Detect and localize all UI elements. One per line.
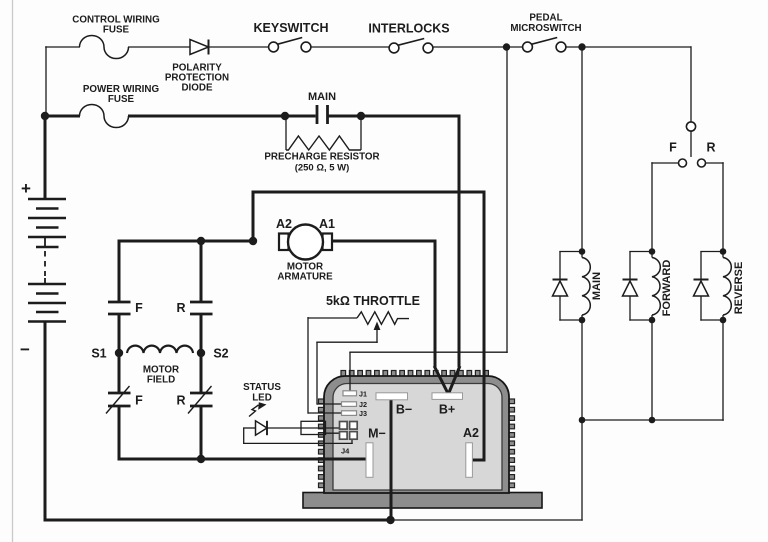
throttle wiper arrow	[374, 322, 381, 344]
label B+	[439, 403, 455, 417]
wire coil return bus	[581, 419, 724, 421]
svg-text:PRECHARGE RESISTOR: PRECHARGE RESISTOR	[264, 152, 379, 163]
coil MAIN winding	[582, 252, 590, 321]
contact R normally-closed	[188, 386, 213, 414]
svg-text:A2: A2	[276, 217, 292, 231]
wire B+ drop (power)	[449, 115, 460, 394]
wire A2 drop to controller	[472, 191, 486, 462]
pin J1	[343, 391, 357, 396]
coil FORWARD winding	[652, 252, 660, 321]
label keyswitch	[254, 21, 329, 35]
LED connector housing	[301, 421, 326, 434]
svg-text:F: F	[135, 301, 143, 315]
svg-text:J1: J1	[359, 390, 367, 399]
svg-text:LED: LED	[252, 393, 272, 404]
pin J3	[342, 411, 357, 416]
svg-text:(250 Ω, 5 W): (250 Ω, 5 W)	[295, 163, 350, 174]
svg-text:FUSE: FUSE	[108, 94, 135, 105]
diode D1 polarity protection	[190, 40, 209, 55]
label MAIN contactor	[308, 91, 336, 103]
node field bottom	[197, 455, 205, 463]
svg-text:−: −	[20, 340, 30, 359]
wire bottom bus thin (coil return)	[390, 419, 583, 521]
svg-text:R: R	[176, 394, 185, 408]
svg-text:S2: S2	[213, 347, 228, 361]
label power wiring fuse	[83, 84, 160, 105]
label polarity protection diode	[165, 63, 229, 94]
wire precharge bypass	[286, 116, 361, 150]
wire control fuse to diode	[128, 46, 190, 48]
label A2 terminal	[463, 426, 479, 440]
node armature A2 junction	[249, 237, 257, 245]
wire power fuse to MAIN contactor	[128, 115, 316, 118]
wire REVERSE coil to bus	[722, 320, 724, 421]
controller inner panel	[333, 384, 502, 491]
label J2	[359, 400, 367, 409]
wire throttle wiper to J2	[316, 342, 377, 405]
motor armature M1	[279, 225, 332, 260]
wire battery negative rail	[44, 321, 47, 522]
terminal A2 stud	[466, 443, 473, 478]
wire A2 junction riser	[252, 191, 255, 243]
wire LED cathode to J4	[267, 427, 342, 429]
switch S1 keyswitch	[269, 38, 311, 52]
wire bottom bus thick (B- return)	[44, 519, 391, 522]
contact F normally-open	[108, 302, 131, 314]
wire FORWARD coil to bus	[651, 320, 653, 421]
label MAIN coil	[591, 272, 603, 300]
node J1 control tap	[503, 43, 510, 50]
label J3	[359, 409, 367, 418]
wire A2 top run	[252, 191, 486, 194]
node battery power tap	[41, 112, 49, 120]
label F contact NC	[135, 394, 143, 408]
label R contact NO	[176, 301, 185, 315]
potentiometer R2 5k throttle	[308, 312, 409, 325]
wire control line to fuse	[45, 46, 80, 48]
wire A1 to B+ drop	[331, 240, 448, 394]
svg-text:J4: J4	[341, 447, 350, 456]
wire diode to keyswitch	[210, 46, 269, 48]
node REVERSE coil bottom	[720, 317, 727, 324]
switch FR contact F	[679, 159, 687, 167]
wire MAIN contactor to B+ drop	[328, 115, 461, 118]
label F selector	[669, 141, 677, 155]
terminal B- busbar	[376, 393, 408, 400]
connector J4	[340, 422, 358, 440]
terminal B+ busbar	[432, 393, 463, 400]
svg-text:A1: A1	[319, 217, 335, 231]
label A1 armature	[319, 217, 335, 231]
label FORWARD coil	[661, 260, 673, 317]
wire throttle high to J3	[308, 317, 343, 414]
label REVERSE coil	[733, 262, 745, 315]
svg-text:M−: M−	[368, 427, 386, 441]
label S2	[213, 347, 228, 361]
node FORWARD coil bottom	[649, 317, 656, 324]
switch FR selector common	[686, 122, 695, 157]
label battery plus	[21, 179, 31, 198]
svg-text:FORWARD: FORWARD	[661, 260, 673, 317]
wire LED anode return	[243, 428, 353, 444]
wire pedal microswitch to FR switch	[566, 46, 691, 122]
switch FR contact R	[698, 159, 706, 167]
node S1	[115, 349, 123, 357]
wire R contact to REVERSE coil	[705, 162, 723, 252]
battery BT1	[28, 199, 66, 322]
label R contact NC	[176, 394, 185, 408]
svg-text:B−: B−	[396, 403, 412, 417]
wire power line left	[45, 115, 80, 118]
coil REVERSE winding	[723, 252, 731, 321]
svg-text:F: F	[135, 394, 143, 408]
wire B- drop to bus	[390, 399, 393, 521]
node field S2 top	[197, 237, 205, 245]
wire field top / armature A2	[119, 240, 254, 243]
node coil bus FORWARD	[649, 417, 656, 424]
wire LED connector second pin	[325, 432, 342, 434]
node MAIN coil bottom	[579, 317, 586, 324]
wire MAIN coil feed	[581, 46, 583, 253]
label S1	[91, 347, 106, 361]
svg-text:PEDAL: PEDAL	[529, 13, 562, 24]
wire J1 throttle control	[349, 46, 507, 393]
wire field left branch S1	[118, 240, 121, 461]
wire F contact to FORWARD coil	[651, 162, 678, 252]
svg-text:DIODE: DIODE	[181, 83, 212, 94]
svg-text:MAIN: MAIN	[591, 272, 603, 300]
fuse power wiring	[80, 104, 129, 127]
wire field right branch S2	[200, 240, 203, 461]
diode REVERSE flyback	[694, 252, 724, 321]
contact F normally-closed	[106, 386, 131, 414]
node precharge right	[357, 112, 365, 120]
node precharge left	[281, 112, 289, 120]
label control wiring fuse	[72, 15, 160, 36]
terminal M- stud	[366, 443, 373, 478]
diode FORWARD flyback	[623, 252, 653, 321]
page edge line	[12, 0, 14, 542]
svg-text:FIELD: FIELD	[147, 375, 175, 386]
status LED D2	[243, 421, 267, 435]
svg-text:A2: A2	[463, 426, 479, 440]
label A2 armature	[276, 217, 292, 231]
wire MAIN coil to bus	[581, 320, 583, 420]
label 5k throttle	[326, 294, 420, 308]
label pedal microswitch	[510, 13, 581, 35]
label J4	[341, 447, 350, 456]
svg-text:S1: S1	[91, 347, 106, 361]
controller heatsink fins	[319, 371, 515, 488]
switch S2 interlocks	[389, 39, 433, 53]
label interlocks	[368, 22, 449, 36]
node REVERSE coil top	[720, 248, 727, 255]
label battery minus	[20, 340, 30, 359]
wire keyswitch to interlocks	[311, 46, 389, 48]
svg-text:J3: J3	[359, 409, 367, 418]
svg-text:5kΩ THROTTLE: 5kΩ THROTTLE	[326, 294, 420, 308]
svg-text:F: F	[669, 141, 677, 155]
controller outer shell	[324, 376, 509, 493]
svg-text:MAIN: MAIN	[308, 91, 336, 103]
label status led	[243, 382, 281, 404]
node MAIN coil top	[579, 248, 586, 255]
svg-text:KEYSWITCH: KEYSWITCH	[254, 21, 329, 35]
svg-text:FUSE: FUSE	[103, 24, 130, 35]
wire battery positive rail	[44, 116, 47, 200]
pin J2	[342, 402, 357, 407]
svg-text:J2: J2	[359, 400, 367, 409]
label motor field	[143, 365, 179, 386]
svg-text:ARMATURE: ARMATURE	[277, 272, 333, 283]
contactor K1 MAIN tips	[317, 105, 328, 124]
label M-	[368, 427, 386, 441]
node FORWARD coil top	[649, 248, 656, 255]
svg-text:STATUS: STATUS	[243, 382, 281, 393]
controller mounting flange	[303, 493, 542, 509]
LED flash arrow	[249, 402, 267, 416]
switch S3 pedal microswitch	[523, 38, 566, 52]
inductor motor field	[127, 346, 193, 353]
svg-text:R: R	[176, 301, 185, 315]
label B-	[396, 403, 412, 417]
label J1	[359, 390, 367, 399]
svg-text:INTERLOCKS: INTERLOCKS	[368, 22, 449, 36]
label motor armature	[277, 262, 333, 283]
svg-text:R: R	[706, 141, 715, 155]
wire field bottom to M-	[118, 458, 368, 461]
resistor R1 precharge	[286, 136, 361, 150]
node S2	[197, 349, 205, 357]
svg-text:REVERSE: REVERSE	[733, 262, 745, 315]
node MAIN coil tap	[578, 43, 585, 50]
label F contact NO	[135, 301, 143, 315]
svg-text:MICROSWITCH: MICROSWITCH	[510, 23, 581, 34]
fuse control wiring	[80, 35, 129, 58]
wire interlocks to pedal microswitch	[433, 46, 523, 48]
label precharge resistor	[264, 152, 379, 174]
diode MAIN flyback	[553, 252, 583, 321]
node coil bus MAIN	[579, 417, 586, 424]
svg-text:B+: B+	[439, 403, 455, 417]
node B- bus junction	[386, 516, 394, 524]
wire control tap vertical	[45, 46, 47, 116]
contact R normally-open	[190, 302, 213, 314]
svg-text:+: +	[21, 179, 31, 198]
label R selector	[706, 141, 715, 155]
